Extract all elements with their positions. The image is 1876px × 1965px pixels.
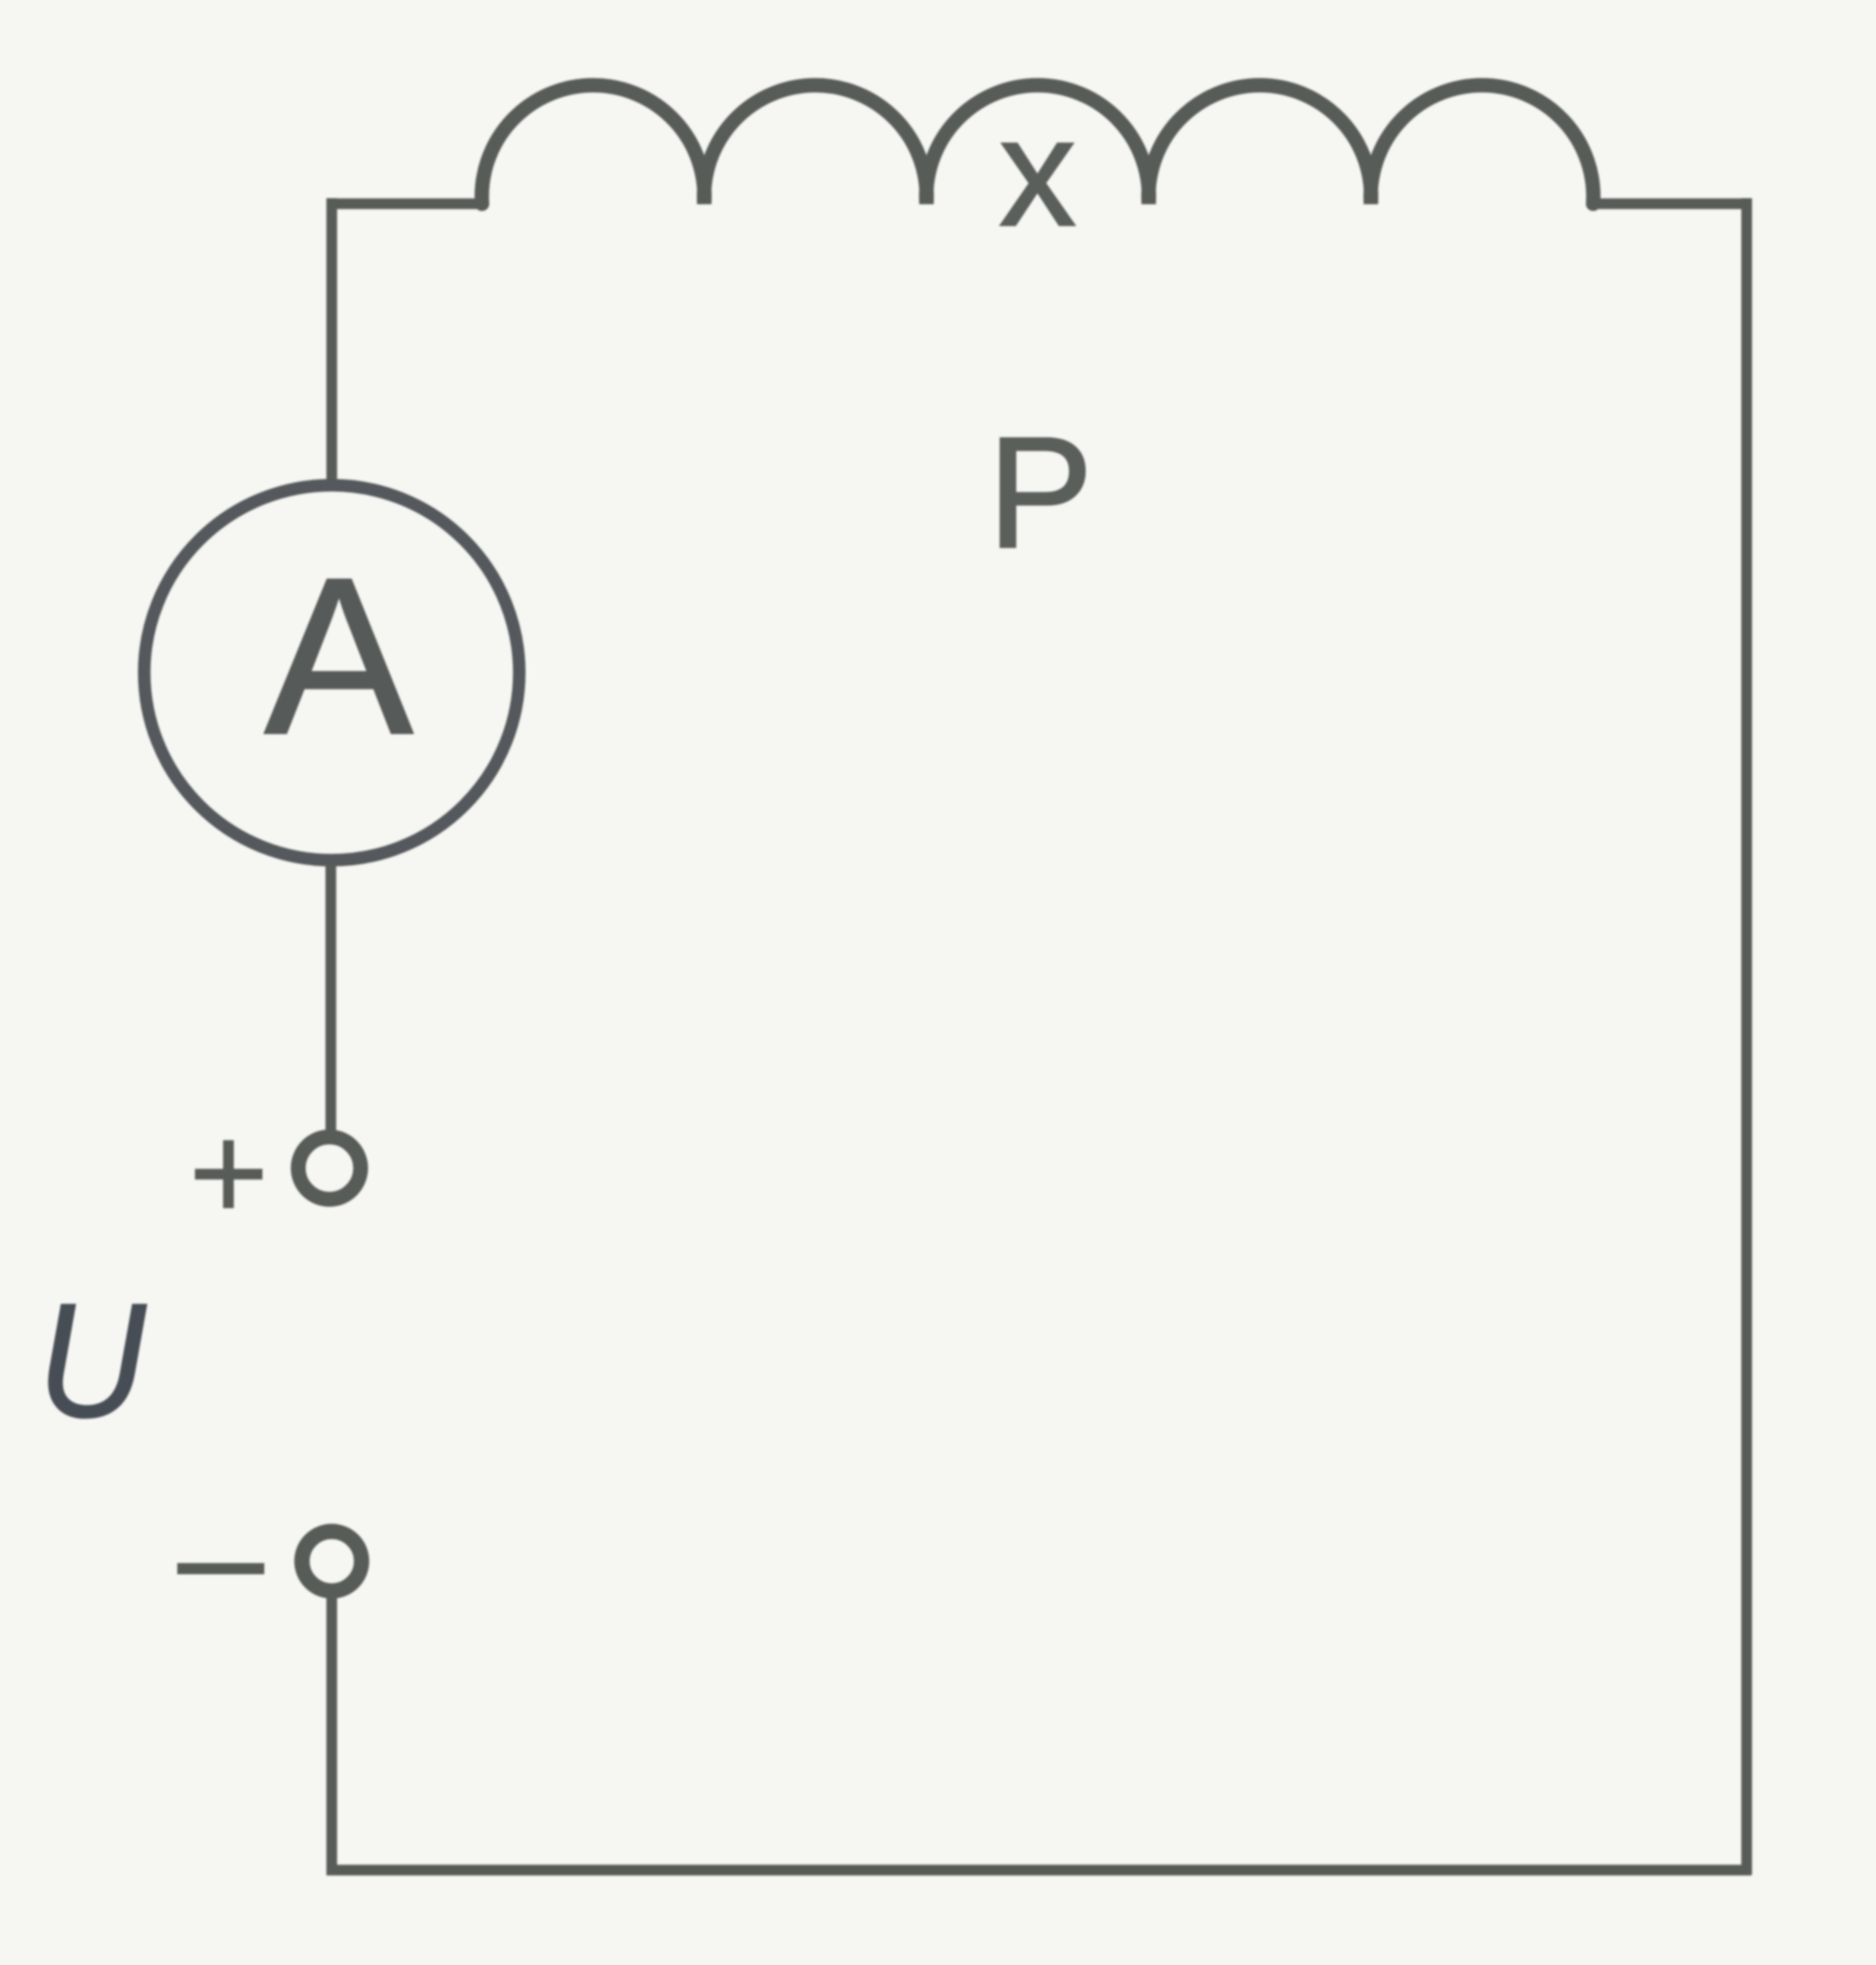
ammeter A1 (circle) bbox=[144, 486, 519, 861]
svg-text:U: U bbox=[37, 1269, 147, 1451]
plus terminal (open circle) bbox=[299, 1137, 361, 1199]
wire: top-right horizontal segment bbox=[1593, 198, 1751, 209]
svg-text:P: P bbox=[987, 405, 1092, 581]
minus terminal (open circle) bbox=[302, 1531, 362, 1591]
svg-text:A: A bbox=[264, 531, 413, 781]
wire: ammeter to plus terminal bbox=[326, 863, 337, 1131]
wire: bottom horizontal side bbox=[327, 1865, 1751, 1876]
wire: left vertical, corner to ammeter bbox=[327, 198, 337, 481]
wire: top-left horizontal segment bbox=[327, 198, 484, 209]
wire: minus terminal to bottom-left corner bbox=[327, 1591, 338, 1875]
svg-text:x: x bbox=[999, 87, 1077, 259]
wire: right vertical side bbox=[1741, 198, 1752, 1875]
plus sign bbox=[195, 1141, 263, 1209]
inductor L (coil, 5 humps) bbox=[482, 86, 1593, 204]
minus sign bbox=[178, 1563, 265, 1574]
